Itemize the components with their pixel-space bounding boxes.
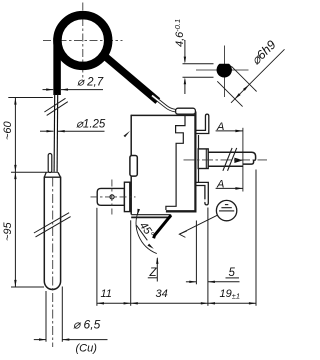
dim 5: [186, 267, 240, 283]
capillary tube down to bulb: [53, 94, 56, 172]
section label A top: [216, 121, 243, 133]
leader arrowhead at body left: [124, 131, 131, 137]
body bottom band: [131, 214, 171, 216]
terminal rivet: [110, 195, 114, 199]
svg-text:~95: ~95: [2, 221, 14, 241]
section label A bottom: [216, 179, 243, 191]
dim 45 arc: [136, 210, 157, 253]
left wall terminal: [130, 156, 137, 177]
terminal centerline horizontal: [91, 196, 136, 198]
top mounting tab: [196, 114, 209, 133]
dim 34: [131, 302, 138, 304]
capillary tube thin section to fitting: [152, 96, 177, 111]
contact blade 45: [154, 215, 171, 238]
shaft flat runout wedge: [234, 158, 243, 163]
dim 19+-1: [208, 302, 215, 304]
body right edge: [194, 112, 196, 212]
dim ~60: [2, 98, 53, 173]
shaft centerline: [184, 159, 268, 161]
svg-text:11: 11: [101, 288, 112, 300]
mounting plate edge lower: [198, 168, 200, 182]
svg-text:34: 34: [156, 288, 168, 300]
bulb centerline: [52, 178, 54, 348]
sensor bulb: [44, 177, 60, 290]
section blob d6h9: [217, 64, 232, 78]
terminal cylinder left: [97, 188, 124, 205]
bulb collar: [44, 172, 60, 177]
dim 11: [97, 302, 104, 304]
dim 4.6-0.1: [173, 19, 214, 94]
bottom mounting tab: [196, 182, 208, 205]
bulb collar extension line: [11, 171, 58, 173]
terminal flange: [124, 182, 129, 211]
capillary coil: [57, 15, 108, 66]
dim d2.7: [43, 76, 104, 91]
shaft hub face line: [205, 149, 207, 169]
shaft hub: [198, 149, 208, 169]
svg-text:Z: Z: [149, 267, 158, 279]
bottom dim extension lines: [96, 208, 98, 306]
shaft break mark: [223, 148, 232, 171]
coil centerline vertical: [82, 3, 84, 79]
bottom dim line: [97, 302, 256, 304]
svg-text:(Cu): (Cu): [76, 343, 98, 355]
svg-text:⌀ 2,7: ⌀ 2,7: [77, 76, 104, 88]
blob centerline horizontal: [196, 69, 249, 71]
body left edge: [130, 115, 132, 156]
dim d6.5: [34, 287, 108, 342]
bulb break mark: [34, 213, 69, 233]
shaft: [208, 152, 255, 164]
svg-text:⌀ 6,5: ⌀ 6,5: [73, 318, 101, 332]
svg-text:~60: ~60: [2, 120, 14, 140]
svg-text:⌀1.25: ⌀1.25: [76, 119, 106, 131]
capillary fitting: [176, 108, 196, 114]
inner bottom edge: [166, 210, 197, 212]
capillary break mark: [44, 98, 65, 112]
dim d1.25: [40, 119, 106, 133]
mounting plate edge upper: [198, 135, 200, 149]
earth leader: [179, 215, 217, 234]
coil centerline horizontal: [43, 39, 123, 41]
shaft bottom edge: [208, 165, 243, 167]
svg-text:5: 5: [229, 267, 236, 279]
dim ~95: [2, 172, 44, 287]
dim Z: [148, 257, 159, 282]
d6h9 dim line: [231, 49, 285, 103]
section line A-A: [242, 128, 244, 192]
capillary tube left leg: [53, 38, 61, 95]
label 45: [136, 219, 157, 241]
d6h9 extension lines: [231, 66, 256, 91]
terminal centerline vertical: [111, 180, 113, 215]
capillary tube diagonal: [101, 53, 158, 102]
earth terminal symbol: [216, 200, 236, 220]
fill tube on bulb: [48, 154, 52, 173]
blob centerline vertical: [223, 46, 225, 98]
body top edge: [131, 114, 195, 116]
inner seam stepped: [166, 116, 185, 210]
